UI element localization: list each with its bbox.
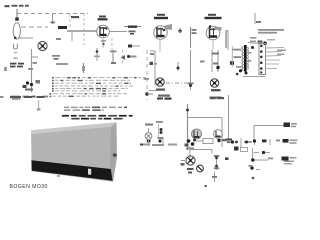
label 6SC7 xyxy=(71,16,79,18)
wire dashed xyxy=(83,13,85,45)
node tick xyxy=(94,56,100,58)
marks below pot xyxy=(187,168,194,174)
wire dashed bus top xyxy=(17,13,88,15)
wire vertical gray bar xyxy=(225,30,227,48)
fuse marks xyxy=(156,121,164,146)
wire xyxy=(150,51,155,85)
label V4 6X4 xyxy=(157,98,172,100)
svg-text:BOGEN MO30: BOGEN MO30 xyxy=(10,184,48,190)
node tick xyxy=(28,68,33,70)
tube V4 rectifier xyxy=(192,129,202,139)
wire xyxy=(52,14,54,24)
node corner marks xyxy=(150,53,154,55)
stray mark xyxy=(57,175,60,177)
node oval bottom dot xyxy=(14,37,17,40)
node tick xyxy=(18,37,21,39)
switch S1 rotary xyxy=(149,78,170,97)
wire below xyxy=(212,172,217,182)
wire top right xyxy=(254,13,256,24)
wire dashed xyxy=(111,38,113,50)
wire dashed xyxy=(122,50,124,64)
wire pair xyxy=(211,50,213,72)
ground xyxy=(226,139,233,143)
bottom right mid cluster xyxy=(234,147,270,159)
tube V1 6SC7 xyxy=(97,25,110,48)
wire xyxy=(217,50,219,72)
relay box xyxy=(196,139,213,144)
wire dash-dot xyxy=(166,82,187,84)
node left margin mark xyxy=(4,67,7,71)
node tilde xyxy=(14,51,17,54)
tube V3 6V6 xyxy=(206,25,222,50)
capacitor C4 xyxy=(129,31,136,35)
label LO-Z MIC xyxy=(10,63,24,68)
capacitor C5 xyxy=(52,55,68,65)
node left edge component xyxy=(150,62,154,65)
switch cluster right xyxy=(217,139,227,142)
connector jack J1 U-shape xyxy=(14,44,18,49)
wire xyxy=(190,50,192,90)
speaker label cluster xyxy=(251,157,296,165)
node arrow xyxy=(121,55,126,60)
node bridge marks xyxy=(212,53,219,65)
wire bracket xyxy=(225,31,228,51)
resistor R9 vertical xyxy=(110,50,117,64)
label speaker taps xyxy=(277,50,286,56)
node tick xyxy=(144,78,150,80)
wire feedback xyxy=(250,37,275,45)
capacitor C7 coupling xyxy=(191,27,197,48)
capacitor C1 electrolytic oval xyxy=(13,23,20,39)
potentiometer R21 small xyxy=(197,165,204,172)
bottom center row small parts xyxy=(140,139,177,146)
wire plate bus xyxy=(67,30,97,32)
wire xyxy=(109,31,127,33)
wire with dot xyxy=(37,100,41,110)
junction cluster jacks xyxy=(23,80,41,91)
photo: top face lighter xyxy=(31,122,117,134)
label output trans xyxy=(258,29,284,34)
node dash xyxy=(13,58,17,59)
node tick xyxy=(51,22,56,24)
node dot xyxy=(186,109,189,112)
bottom right components row xyxy=(231,138,298,148)
label left of notes xyxy=(10,96,45,98)
node J1 mic input label xyxy=(5,5,29,7)
wire right vertical xyxy=(228,95,230,140)
connector dark blob xyxy=(58,26,67,29)
capacitor C20 bracket xyxy=(214,155,219,170)
wire speaker fan xyxy=(266,48,285,69)
wire stub xyxy=(147,93,153,95)
component below xyxy=(128,45,140,48)
node stub xyxy=(32,56,39,58)
node input arrow xyxy=(15,9,19,21)
caption rows under notes xyxy=(64,107,127,111)
label SE RECT xyxy=(210,97,224,99)
resistor R12 xyxy=(177,62,180,71)
label V2 xyxy=(154,14,168,19)
wire dashed xyxy=(69,14,71,28)
node marks xyxy=(200,61,205,63)
node tick and dot xyxy=(188,83,194,88)
switch S2 rotary xyxy=(210,79,222,99)
wire PS vertical main xyxy=(187,104,189,150)
resistor R5 xyxy=(124,26,141,28)
label PRE OUT xyxy=(10,96,48,100)
wire xyxy=(96,48,98,61)
plug P2 xyxy=(284,123,298,128)
wire AC bracket xyxy=(254,126,285,141)
potentiometer R20 hum xyxy=(181,156,196,166)
node dot xyxy=(145,92,149,96)
wire main vertical bus xyxy=(31,49,33,92)
transformer T2 output xyxy=(230,43,265,77)
node cathode marks V1 xyxy=(101,40,106,42)
photo: chassis base xyxy=(31,122,117,182)
node dot xyxy=(216,66,219,69)
wire xyxy=(71,31,73,41)
caption rows dark xyxy=(62,115,133,120)
wire xyxy=(21,37,33,39)
node tick xyxy=(56,38,61,40)
photo: right side face xyxy=(110,122,117,182)
tube V2 6SL7 xyxy=(154,24,172,52)
tube V5 xyxy=(214,130,223,139)
label V3 6V6GC xyxy=(205,14,222,19)
label V1 xyxy=(98,16,108,21)
wire down from socket xyxy=(189,146,191,160)
arrow component xyxy=(127,55,137,58)
wire horizontal xyxy=(190,150,212,154)
wire xyxy=(21,26,48,28)
pilot lamp P1 xyxy=(145,124,153,143)
node plus marks xyxy=(178,29,182,34)
bottom right lower dots xyxy=(249,165,261,179)
node left edge jack xyxy=(0,96,4,98)
potentiometer R2 volume xyxy=(38,41,47,50)
tube V5 socket cluster xyxy=(185,139,197,150)
node tick xyxy=(256,21,261,23)
photo: front black band xyxy=(31,160,112,181)
photo: lamp slot xyxy=(88,169,91,175)
wire PS box xyxy=(188,118,223,148)
wire right of notes xyxy=(146,50,148,100)
terminal strip TB1 xyxy=(259,44,266,75)
node tiny xyxy=(205,185,208,187)
node small xyxy=(225,158,229,160)
node dot xyxy=(96,50,99,53)
resistor R8 vertical xyxy=(82,63,85,73)
photo: knob dark xyxy=(113,153,117,157)
notes text block xyxy=(50,77,147,97)
node tick xyxy=(33,62,38,64)
